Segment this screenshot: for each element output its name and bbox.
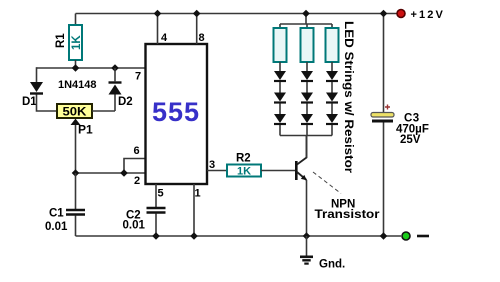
node D2/pin7 junction [111,64,119,72]
wire pin8 stub [196,14,198,45]
svg-text:50K: 50K [63,105,87,119]
capacitor C3 positive plate [371,113,394,118]
terminal negative output [402,232,410,240]
wire C1 bottom leg [75,216,77,237]
node pin8 junction [193,10,201,18]
svg-text:LED Strings w/ Resistor: LED Strings w/ Resistor [342,21,354,174]
svg-text:1K: 1K [237,166,251,178]
capacitor C2 [147,207,166,209]
wire LED feed from rail [305,14,307,25]
svg-text:25V: 25V [400,134,421,146]
callout dashed line to NPN label [313,172,341,194]
wire pin1 stub [193,184,195,236]
wire pin3 stub [207,170,227,172]
wire C2 bottom leg [155,214,157,237]
wire C1 top leg [75,173,77,209]
wire pot right leg [92,110,115,112]
diode D2 [109,81,122,83]
node R1/pin7 junction [72,64,80,72]
wire pin2 row [76,172,146,174]
svg-text:3: 3 [209,159,215,171]
svg-text:C1: C1 [49,208,64,220]
wire bus to collector [306,136,308,158]
wiper arrow of P1 [71,119,81,125]
wire LED bottom bus [280,135,332,137]
svg-text:1K: 1K [71,35,83,50]
potentiometer P1 body [57,104,92,118]
resistor string2 [301,28,314,62]
capacitor C3 negative plate [372,120,393,123]
node pin6/pin2 junction [120,169,128,177]
node C3 top junction [380,10,388,18]
svg-text:Gnd.: Gnd. [319,259,345,271]
wire pin5 stub [155,184,157,207]
svg-text:Transistor: Transistor [315,207,380,221]
resistor string1 [274,28,287,62]
resistor R2 [227,165,261,177]
ground [300,255,313,258]
node pin1/rail junction [190,232,198,240]
transistor Q1 base bar [295,161,298,180]
ground stem [306,236,308,256]
wire pin7 row [37,67,146,69]
LED string 1 [274,62,286,136]
wire emitter to rail [306,180,308,236]
svg-text:8: 8 [199,32,205,44]
svg-text:+12V: +12V [411,9,445,21]
wire bottom ground rail [76,235,402,237]
wire C3 top leg [383,14,385,113]
LED string 3 [326,62,338,136]
node C2/rail junction [152,232,160,240]
polarity + mark of C3 [385,105,390,110]
svg-text:4: 4 [161,32,168,44]
IC 555 body U1 [146,44,208,184]
wire string stubs top [279,24,281,28]
svg-text:5: 5 [158,188,164,200]
svg-text:555: 555 [152,97,200,127]
terminal +12V [397,10,405,18]
diode D1 [30,82,43,92]
svg-text:D2: D2 [118,96,133,108]
svg-text:0.01: 0.01 [45,221,68,233]
wire D1 bottom leg [37,95,58,112]
transistor Q1 emitter [297,172,307,180]
svg-text:P1: P1 [78,123,93,137]
svg-text:D1: D1 [22,96,37,108]
wire D2 top leg [114,68,116,82]
svg-text:2: 2 [134,175,140,187]
svg-text:R1: R1 [55,33,67,48]
svg-text:6: 6 [134,145,140,157]
wire R1 bottom stub [75,60,77,68]
wire pin4 stub [157,14,159,45]
node emitter/rail junction [303,232,311,240]
node wiper/C1/pin2 junction [72,169,80,177]
node LED feed junction [302,10,310,18]
svg-text:1N4148: 1N4148 [58,79,97,91]
LED string 2 [301,62,313,136]
wire D1 top leg [36,67,38,82]
wire top +12V rail [76,13,398,15]
wire R1 top stub [75,14,77,26]
wire wiper to pins 2-6 [75,125,77,173]
node C3/rail junction [380,232,388,240]
svg-text:R2: R2 [236,153,251,165]
resistor R1 [69,25,82,60]
svg-text:7: 7 [135,71,141,83]
negative dash [417,235,429,238]
node pin4 junction [154,10,162,18]
transistor Q1 collector [297,136,307,165]
wire R2 to base [261,170,295,172]
wire C3 bottom leg [383,123,385,237]
capacitor C1 [66,209,85,211]
svg-text:0.01: 0.01 [123,220,146,232]
wire LED top bus [280,23,332,25]
wire pin6 loop [124,159,146,174]
svg-text:1: 1 [195,188,201,200]
wire D2 bottom leg [114,95,116,112]
resistor string3 [326,28,339,62]
